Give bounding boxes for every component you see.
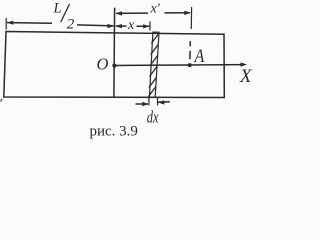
svg-text:dx: dx — [147, 108, 159, 127]
svg-text:2: 2 — [67, 17, 75, 33]
svg-text:A: A — [193, 47, 205, 67]
svg-text:рис. 3.9: рис. 3.9 — [90, 124, 138, 140]
svg-text:x: x — [127, 18, 135, 33]
svg-text:x′: x′ — [150, 1, 161, 16]
svg-text:O: O — [97, 55, 109, 74]
svg-text:L: L — [53, 0, 62, 16]
svg-text:X: X — [239, 66, 253, 87]
